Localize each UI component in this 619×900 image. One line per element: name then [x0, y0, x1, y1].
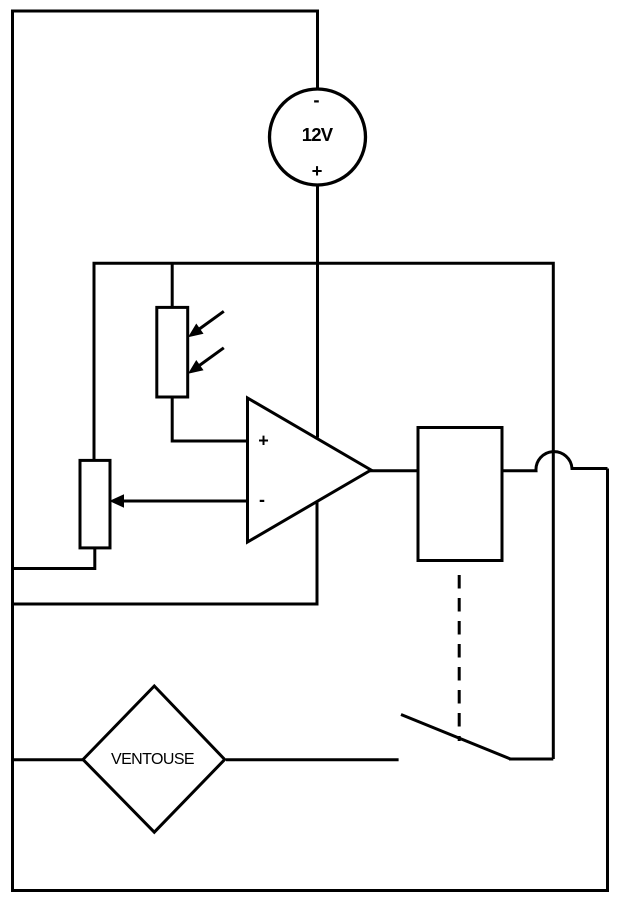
LDR light arrow 2	[189, 348, 224, 373]
wire inner rail: left branch, top rail, right branch down to switch	[94, 263, 553, 759]
LDR light arrow 1	[189, 311, 224, 336]
dashed mechanical link from relay to switch	[458, 575, 461, 741]
op-amp U1	[248, 398, 372, 542]
svg-text:-: -	[259, 490, 265, 510]
svg-text:+: +	[312, 160, 323, 181]
svg-text:+: +	[258, 431, 269, 451]
switch S1 blade (open)	[401, 715, 511, 760]
relay coil K1	[418, 428, 502, 561]
svg-text:VENTOUSE: VENTOUSE	[111, 751, 194, 768]
photoresistor LDR1 body	[157, 307, 188, 397]
wire from ventouse to switch contact	[226, 758, 399, 761]
wire from op-amp bottom (V-) to left frame	[13, 501, 318, 604]
potentiometer P1 body	[80, 460, 110, 548]
svg-text:12V: 12V	[302, 124, 334, 145]
suction cup VENTOUSE	[83, 686, 225, 832]
wire hop (crossover) from relay to right frame	[502, 452, 608, 471]
wire from switch to inner right branch	[509, 758, 553, 761]
wire from top rail down to LDR	[171, 263, 174, 307]
wire from 12V + terminal down to op-amp top	[316, 185, 319, 438]
wire from LDR bottom to op-amp + input	[172, 397, 246, 441]
voltage source B1 12V	[270, 89, 366, 185]
potentiometer wiper arrow from op-amp - input	[111, 495, 247, 507]
wire op-amp output to relay coil	[370, 469, 419, 472]
wire from potentiometer bottom to left frame	[13, 548, 95, 569]
svg-text:-: -	[313, 89, 319, 110]
wire from left frame to ventouse	[13, 758, 84, 761]
